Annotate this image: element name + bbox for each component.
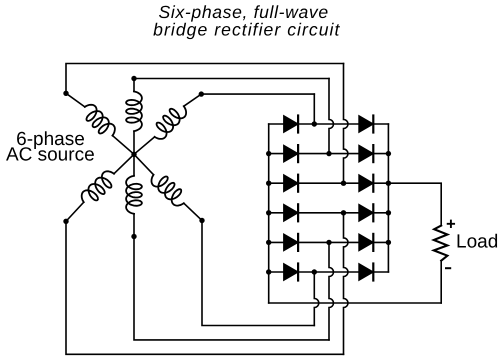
wire: vertical drop to row 3 with hops over rows 1,2 <box>344 64 349 184</box>
wire: upper-right phase to row 1 <box>201 93 314 95</box>
title text <box>153 2 340 40</box>
wire: lower-left winding leads <box>66 154 134 221</box>
junction: row6 phase <box>312 269 317 274</box>
label: - polarity <box>446 267 450 269</box>
junction: right rail row y=183.2 <box>386 181 391 186</box>
inductor: lower-right winding <box>152 175 184 206</box>
junction: right rail row y=153.6 <box>386 151 391 156</box>
wire: top phase to row 2 <box>134 78 329 80</box>
wire: upper-left phase to row 3 (top horizontal) <box>66 64 344 94</box>
wire: right rail (positive bus) <box>387 124 389 272</box>
inductor: bottom winding <box>126 176 142 214</box>
wire: vertical rise to row 4 with hops over rows 5,6 and bottom rail <box>344 213 349 354</box>
diode D5 (row 5 left) <box>284 234 298 251</box>
junction: row4 phase <box>341 210 346 215</box>
node: top phase <box>131 76 136 81</box>
diode D9 (row 3 right) <box>359 175 373 192</box>
wire: vertical rise to row 5 with hops over row 6 and bottom rail <box>329 242 334 340</box>
node: star center <box>131 152 136 157</box>
node: lower-left phase <box>63 219 68 224</box>
diode D2 (row 2 left) <box>284 145 298 162</box>
label: Load <box>456 231 498 252</box>
wire: positive output tap from right rail to load <box>388 183 441 225</box>
diode D10 (row 4 right) <box>359 204 373 221</box>
inductor: top winding <box>126 91 142 131</box>
wire: bottom phase down and right to row 5 <box>134 237 329 340</box>
diode D7 (row 1 right) <box>359 116 373 133</box>
label: + polarity <box>448 221 454 227</box>
junction: left rail row y=212.8 <box>266 210 271 215</box>
wire: top winding leads <box>133 79 135 155</box>
wire: bridge row 6 <box>269 271 389 273</box>
wire: vertical drop to row 2 with hop over row 1 <box>329 79 334 154</box>
wire: lower-left phase down and right to row 4 <box>66 221 344 354</box>
node: upper-right phase <box>199 91 204 96</box>
wire: bridge row 1 <box>269 123 389 125</box>
svg-text:Load: Load <box>456 231 498 252</box>
wire: bottom rail to load <box>269 302 442 304</box>
inductor: upper-left winding <box>85 105 115 136</box>
junction: left rail row y=183.2 <box>266 181 271 186</box>
wire: lower-right phase down and right to row 6 <box>202 221 314 326</box>
node: lower-right phase <box>199 218 204 223</box>
inductor: lower-left winding <box>82 171 114 202</box>
diode D8 (row 2 right) <box>359 145 373 162</box>
junction: row3 phase <box>341 181 346 186</box>
wire: bottom winding leads <box>133 154 135 236</box>
diode D3 (row 3 left) <box>284 175 298 192</box>
wire: upper-left winding leads <box>66 93 134 154</box>
wire: bridge row 2 <box>269 153 389 155</box>
wire: vertical rise to row 6 with hop over bottom rail <box>314 272 319 326</box>
inductor: upper-right winding <box>155 106 187 139</box>
svg-text:bridge rectifier circuit: bridge rectifier circuit <box>153 20 340 40</box>
label: 6-phase AC source <box>6 129 95 165</box>
wire: upper-right winding leads <box>134 94 201 154</box>
diode D6 (row 6 left) <box>284 264 298 281</box>
junction: row1 phase <box>312 121 317 126</box>
junction: left rail row y=242.4 <box>266 240 271 245</box>
diode D11 (row 5 right) <box>359 234 373 251</box>
svg-text:AC source: AC source <box>6 145 95 166</box>
resistor: Load <box>434 226 448 261</box>
junction: left rail row y=272.0 <box>266 269 271 274</box>
diode D4 (row 4 left) <box>284 204 298 221</box>
junction: row5 phase <box>326 240 331 245</box>
wire: load bottom to bottom rail <box>440 261 442 303</box>
wire: bridge row 4 <box>269 212 389 214</box>
diode D12 (row 6 right) <box>359 264 373 281</box>
junction: right rail row y=212.8 <box>386 210 391 215</box>
node: bottom phase <box>131 234 136 239</box>
wire: bridge row 3 <box>269 182 389 184</box>
diode D1 (row 1 left) <box>284 116 298 133</box>
wire: bridge row 5 <box>269 241 389 243</box>
wire: vertical drop to row 1 <box>313 94 315 124</box>
junction: left rail row y=153.6 <box>266 151 271 156</box>
junction: right rail row y=242.4 <box>386 240 391 245</box>
node: upper-left phase <box>63 91 68 96</box>
wire: lower-right winding leads <box>134 154 202 220</box>
wire: left rail (negative bus) <box>268 124 270 303</box>
junction: row2 phase <box>326 151 331 156</box>
